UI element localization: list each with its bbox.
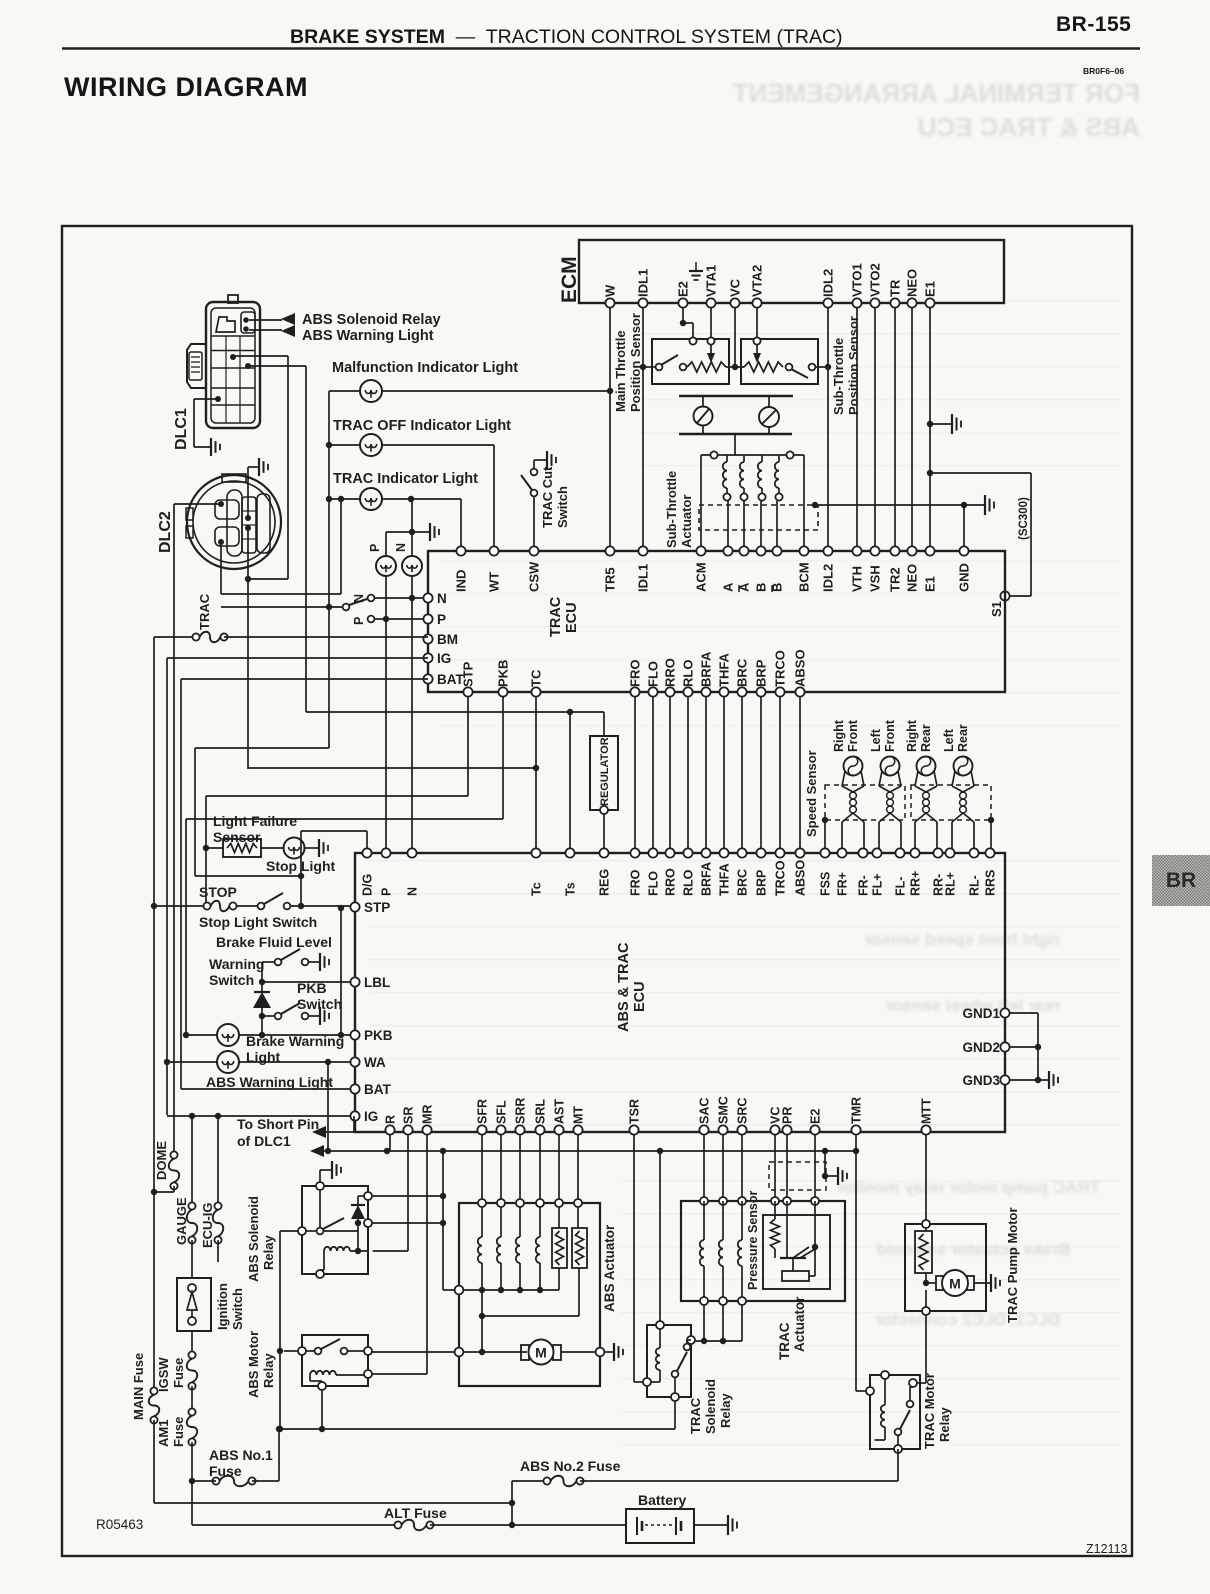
wire IDL1 down bbox=[642, 308, 644, 551]
svg-text:ABS & TRAC: ABS & TRAC bbox=[616, 942, 632, 1032]
regulator wires bbox=[603, 712, 605, 736]
main TPS potentiometer bbox=[687, 362, 726, 372]
svg-text:RR+: RR+ bbox=[909, 871, 923, 896]
svg-text:Right: Right bbox=[832, 719, 846, 752]
throttle plate 2 bbox=[759, 407, 779, 427]
svg-text:RRO: RRO bbox=[663, 658, 678, 687]
svg-text:IDL1: IDL1 bbox=[636, 564, 651, 592]
wire VTA2 bbox=[756, 308, 758, 339]
battery bbox=[626, 1509, 694, 1543]
svg-text:N: N bbox=[406, 887, 420, 896]
wire VC bbox=[734, 308, 736, 367]
DLC1 side latch bbox=[187, 344, 206, 388]
svg-text:Brake Warning: Brake Warning bbox=[246, 1033, 344, 1049]
svg-text:TRAC Indicator Light: TRAC Indicator Light bbox=[333, 471, 478, 487]
PKB row bbox=[186, 1034, 217, 1036]
svg-text:ABS Motor: ABS Motor bbox=[246, 1331, 261, 1398]
lamp N bbox=[402, 556, 422, 576]
ABS ECU pin FL- bbox=[895, 848, 904, 857]
ABS ECU pin BRFA bbox=[701, 848, 710, 857]
svg-text:STOP: STOP bbox=[199, 884, 237, 900]
E1 to S1 loop (SC300) bbox=[927, 470, 933, 476]
svg-text:BRP: BRP bbox=[755, 870, 769, 896]
wire TC to Tc bbox=[535, 697, 537, 849]
svg-text:P: P bbox=[380, 888, 394, 896]
svg-text:IGSW: IGSW bbox=[156, 1357, 171, 1392]
svg-text:ECU: ECU bbox=[632, 981, 648, 1012]
svg-text:REG: REG bbox=[598, 869, 612, 896]
BR thumb tab bbox=[1152, 855, 1210, 906]
wire N lamp down to ABS N pin bbox=[411, 576, 413, 853]
short pin arrow 1 bbox=[312, 1126, 326, 1138]
TRAC ECU pin FRO bbox=[630, 687, 639, 696]
DLC1 ground bbox=[194, 398, 218, 400]
svg-text:Ts: Ts bbox=[564, 882, 578, 896]
E1 ground tap bbox=[927, 421, 933, 427]
svg-text:TRAC: TRAC bbox=[197, 593, 212, 630]
wire E2 bbox=[814, 1135, 816, 1201]
TRAC ECU pin BCM bbox=[799, 546, 808, 555]
TRAC fuse bbox=[154, 636, 196, 638]
wires SAC SMC SRC bbox=[703, 1135, 705, 1201]
svg-text:W: W bbox=[603, 284, 618, 297]
ABS ECU pin SRR bbox=[515, 1125, 524, 1134]
STOP fuse bbox=[154, 905, 207, 907]
svg-text:FRO: FRO bbox=[628, 660, 643, 687]
ghost bleed-through text top right bbox=[640, 78, 1140, 109]
svg-text:TRCO: TRCO bbox=[773, 650, 788, 687]
speed sensor Left Rear bbox=[954, 757, 973, 776]
svg-text:Fuse: Fuse bbox=[171, 1417, 186, 1447]
svg-text:SRL: SRL bbox=[534, 1099, 548, 1124]
svg-text:Position Sensor: Position Sensor bbox=[846, 316, 861, 415]
ABS ECU pin MT bbox=[573, 1125, 582, 1134]
TRAC ECU pin THFA bbox=[719, 687, 728, 696]
svg-text:AST: AST bbox=[553, 1099, 567, 1124]
svg-text:Sub-Throttle: Sub-Throttle bbox=[664, 471, 679, 548]
wire VTO2 down bbox=[874, 308, 876, 551]
overbar B bbox=[771, 585, 773, 592]
IG row bbox=[167, 657, 428, 659]
ABS ECU pin SR bbox=[403, 1125, 412, 1134]
svg-text:NEO: NEO bbox=[905, 269, 920, 297]
svg-text:TMR: TMR bbox=[850, 1097, 864, 1124]
svg-text:IDL2: IDL2 bbox=[821, 269, 836, 297]
svg-text:Sensor: Sensor bbox=[213, 829, 261, 845]
svg-text:DLC2: DLC2 bbox=[157, 511, 174, 553]
svg-text:IND: IND bbox=[454, 570, 469, 592]
actuator link from linkage bbox=[734, 434, 736, 455]
DLC2 body bbox=[187, 475, 281, 569]
TRAC pump motor box bbox=[905, 1224, 986, 1311]
ABS motor relay contacts bbox=[315, 1348, 322, 1355]
TRAC OFF indicator light bbox=[360, 434, 382, 456]
pressure sensor box bbox=[763, 1215, 830, 1289]
svg-text:SR: SR bbox=[402, 1107, 416, 1124]
ECM pin VTO1 bbox=[852, 298, 861, 307]
wire RRO to ABS ECU bbox=[669, 697, 671, 849]
wire motor relay coil to row bbox=[321, 1390, 323, 1429]
regulator box bbox=[590, 736, 618, 810]
ABS ECU pin RR- bbox=[933, 848, 942, 857]
ABS ECU pin RLO bbox=[683, 848, 692, 857]
svg-text:Relay: Relay bbox=[261, 1353, 276, 1388]
N row bbox=[375, 597, 428, 599]
svg-text:SAC: SAC bbox=[698, 1098, 712, 1124]
svg-text:P: P bbox=[368, 544, 382, 552]
wire SRL to actuator solenoid bbox=[539, 1135, 541, 1237]
ABS warning light bbox=[217, 1051, 239, 1073]
svg-text:ABS Solenoid Relay: ABS Solenoid Relay bbox=[302, 312, 441, 328]
svg-text:SFR: SFR bbox=[476, 1099, 490, 1124]
TRAC solenoid relay switch bbox=[672, 1371, 679, 1378]
svg-text:BRC: BRC bbox=[735, 658, 750, 687]
pump motor lower wire bbox=[925, 1290, 927, 1311]
throttle linkage bars bbox=[679, 395, 793, 398]
svg-text:RLO: RLO bbox=[681, 660, 696, 687]
ABS actuator box bbox=[459, 1203, 600, 1386]
svg-text:(SC300): (SC300) bbox=[1018, 497, 1030, 540]
ABS ECU pin VC bbox=[770, 1125, 779, 1134]
wire DLC2 TRAC terminal bbox=[220, 542, 222, 594]
TRAC ECU pin S1 bbox=[1000, 591, 1009, 600]
svg-text:FLO: FLO bbox=[646, 661, 661, 687]
ABS solenoid relay box bbox=[302, 1186, 368, 1274]
motor feed row bbox=[373, 1351, 455, 1353]
TRAC ECU pin A bbox=[739, 546, 748, 555]
svg-text:P: P bbox=[352, 617, 366, 625]
TRAC solenoid relay feed bbox=[659, 1151, 661, 1325]
svg-text:ECU-IG: ECU-IG bbox=[200, 1203, 215, 1249]
svg-text:ECU: ECU bbox=[564, 602, 580, 633]
ABS ECU pin SAC bbox=[699, 1125, 708, 1134]
svg-text:Switch: Switch bbox=[209, 972, 254, 988]
TRAC ECU box bbox=[428, 551, 1005, 692]
svg-text:BCM: BCM bbox=[797, 562, 812, 592]
TRAC ECU pin BAT bbox=[423, 674, 432, 683]
ABS ECU pin MTT bbox=[921, 1125, 930, 1134]
svg-text:Left: Left bbox=[869, 728, 883, 752]
sub TPS potentiometer bbox=[744, 362, 783, 372]
wire BCM bbox=[803, 455, 805, 551]
svg-text:PKB: PKB bbox=[297, 980, 327, 996]
wire BRC to ABS ECU bbox=[741, 697, 743, 849]
svg-text:S1: S1 bbox=[989, 601, 1004, 617]
ABS solenoid relay switch bbox=[319, 1190, 321, 1227]
BM row bbox=[224, 636, 428, 638]
TRAC ECU pin RRO bbox=[665, 687, 674, 696]
wire TRCO to ABS ECU bbox=[779, 697, 781, 849]
svg-text:AM1: AM1 bbox=[156, 1420, 171, 1447]
ABS ECU pin LBL bbox=[350, 977, 359, 986]
svg-text:B: B bbox=[754, 583, 769, 592]
TRAC ECU pin VTH bbox=[852, 546, 861, 555]
DLC2 shield ground bbox=[247, 467, 249, 518]
short pin row bbox=[324, 1150, 856, 1152]
wire DLC1 Ts terminal bbox=[248, 365, 306, 367]
svg-text:IG: IG bbox=[437, 651, 451, 666]
svg-text:LBL: LBL bbox=[364, 975, 390, 990]
svg-text:Light Failure: Light Failure bbox=[213, 813, 297, 829]
LBL row bbox=[259, 979, 265, 985]
svg-text:WA: WA bbox=[364, 1055, 386, 1070]
ABS ECU pin SMC bbox=[718, 1125, 727, 1134]
wire MR bbox=[426, 1135, 428, 1374]
sub TPS wiper arrow bbox=[753, 337, 760, 344]
TRAC actuator solenoids bbox=[703, 1201, 705, 1240]
rail x154 bbox=[153, 637, 155, 1391]
svg-text:Speed Sensor: Speed Sensor bbox=[804, 750, 819, 837]
MT resistor bbox=[572, 1228, 587, 1268]
svg-text:Switch: Switch bbox=[555, 486, 570, 528]
svg-text:ABS No.1: ABS No.1 bbox=[209, 1447, 273, 1463]
svg-text:BRFA: BRFA bbox=[700, 862, 714, 896]
PKB loop row bbox=[186, 818, 503, 820]
TRAC ECU pin N bbox=[423, 593, 432, 602]
svg-text:GND: GND bbox=[957, 563, 972, 592]
pump motor resistor bbox=[915, 1231, 932, 1273]
svg-text:Relay: Relay bbox=[718, 1393, 733, 1428]
TRAC ECU pin CSW bbox=[529, 546, 538, 555]
svg-text:TR5: TR5 bbox=[603, 567, 618, 592]
speed sensor Right Rear bbox=[917, 757, 936, 776]
lamp ground row bbox=[386, 531, 430, 533]
ABS ECU pin MR bbox=[422, 1125, 431, 1134]
svg-text:E1: E1 bbox=[923, 281, 938, 297]
svg-text:A: A bbox=[721, 582, 736, 592]
ABS ECU pin Tc bbox=[531, 848, 540, 857]
TRAC ECU pin E1 bbox=[925, 546, 934, 555]
PKB switch bbox=[259, 1013, 265, 1019]
ECM pin W bbox=[605, 298, 614, 307]
svg-text:ABSO: ABSO bbox=[793, 649, 808, 687]
ABS motor relay coil bbox=[310, 1371, 336, 1375]
svg-text:Tc: Tc bbox=[530, 882, 544, 896]
malfunction indicator light bbox=[360, 380, 382, 402]
svg-text:VTO1: VTO1 bbox=[850, 263, 865, 297]
DLC1 cells bbox=[211, 335, 255, 337]
TRAC ECU pin B bbox=[756, 546, 765, 555]
ABS ECU pin RRS bbox=[985, 848, 994, 857]
ABS ECU pin FR- bbox=[858, 848, 867, 857]
svg-text:ABS Warning Light: ABS Warning Light bbox=[302, 328, 434, 344]
svg-text:Pressure Sensor: Pressure Sensor bbox=[746, 1191, 760, 1290]
svg-text:TRAC: TRAC bbox=[688, 1397, 703, 1434]
svg-text:Ignition: Ignition bbox=[215, 1283, 230, 1330]
ABS ECU pin FL+ bbox=[872, 848, 881, 857]
TRAC cut switch bbox=[533, 496, 535, 551]
svg-text:PKB: PKB bbox=[364, 1028, 393, 1043]
ABS ECU pin Ts bbox=[565, 848, 574, 857]
svg-text:NEO: NEO bbox=[905, 564, 920, 592]
short pin arrow 2 bbox=[310, 1145, 324, 1157]
svg-text:TRAC Pump Motor: TRAC Pump Motor bbox=[1005, 1207, 1020, 1323]
svg-text:N: N bbox=[437, 591, 447, 606]
wire SFL to actuator solenoid bbox=[500, 1135, 502, 1237]
ABS ECU pin BRP bbox=[756, 848, 765, 857]
wire Ts bbox=[569, 712, 571, 848]
svg-text:R05463: R05463 bbox=[96, 1517, 143, 1532]
svg-text:TRAC OFF Indicator Light: TRAC OFF Indicator Light bbox=[333, 418, 511, 434]
svg-text:Actuator: Actuator bbox=[679, 495, 694, 548]
wire TR down bbox=[894, 308, 896, 551]
brake fluid warning switch bbox=[275, 959, 282, 966]
svg-text:BRP: BRP bbox=[754, 659, 769, 687]
svg-text:M: M bbox=[535, 1345, 547, 1361]
svg-text:FRO: FRO bbox=[629, 869, 643, 896]
ABS ECU pin SFL bbox=[496, 1125, 505, 1134]
svg-text:To Short Pin: To Short Pin bbox=[237, 1116, 319, 1132]
svg-text:ABSO: ABSO bbox=[794, 860, 808, 896]
svg-text:Malfunction Indicator Light: Malfunction Indicator Light bbox=[332, 360, 518, 376]
ABS ECU pin P bbox=[381, 848, 390, 857]
ECM pin VTO2 bbox=[870, 298, 879, 307]
overbar A bbox=[738, 585, 740, 592]
svg-text:R: R bbox=[384, 1115, 398, 1124]
wire IDL2 down bbox=[827, 308, 829, 551]
TRAC ECU pin TC bbox=[531, 687, 540, 696]
sub TPS switch bbox=[786, 364, 793, 371]
svg-text:MT: MT bbox=[572, 1106, 586, 1124]
MAIN fuse bbox=[150, 1387, 157, 1394]
ABS No.2 fuse bbox=[512, 1480, 547, 1482]
svg-text:REGULATOR: REGULATOR bbox=[599, 737, 611, 806]
svg-text:RLO: RLO bbox=[682, 869, 696, 896]
svg-text:BM: BM bbox=[437, 632, 458, 647]
ABS ECU pin TSR bbox=[629, 1125, 638, 1134]
svg-text:ABS Solenoid: ABS Solenoid bbox=[246, 1196, 261, 1282]
ECM pin IDL2 bbox=[823, 298, 832, 307]
relay to fuse row bbox=[897, 1449, 899, 1481]
ABS ECU pin STP bbox=[350, 902, 359, 911]
ABS ECU pin GND3 bbox=[1000, 1075, 1009, 1084]
sub throttle position sensor box bbox=[741, 339, 818, 384]
svg-text:Front: Front bbox=[846, 719, 860, 752]
stop light subloop bbox=[195, 875, 301, 877]
TRAC ECU pin BRP bbox=[756, 687, 765, 696]
svg-text:Position Sensor: Position Sensor bbox=[628, 313, 643, 412]
svg-text:ACM: ACM bbox=[694, 562, 709, 592]
ABS No.1 row bbox=[279, 1428, 675, 1430]
svg-text:Rear: Rear bbox=[956, 724, 970, 752]
svg-text:D/G: D/G bbox=[361, 874, 375, 896]
svg-text:RRS: RRS bbox=[984, 870, 998, 896]
ABS ECU pin FR+ bbox=[837, 848, 846, 857]
relay bottom to fuse row bbox=[674, 1402, 676, 1429]
svg-text:VTO2: VTO2 bbox=[868, 263, 883, 297]
DLC1 top tab bbox=[228, 295, 238, 303]
svg-text:SRR: SRR bbox=[514, 1098, 528, 1124]
ABS ECU pin FSS bbox=[820, 848, 829, 857]
svg-text:MR: MR bbox=[421, 1105, 435, 1124]
wire ACM bbox=[700, 455, 702, 551]
svg-text:ECM: ECM bbox=[558, 256, 581, 303]
wire TMR bbox=[855, 1135, 857, 1391]
svg-text:TC: TC bbox=[529, 669, 544, 687]
P row bbox=[375, 618, 428, 620]
rail x167 bbox=[166, 658, 168, 1115]
ABS solenoid relay ground bbox=[319, 1170, 321, 1186]
pressure sensor element bbox=[782, 1271, 809, 1281]
wire FLO to ABS ECU bbox=[652, 697, 654, 849]
wire R bbox=[389, 1135, 391, 1151]
svg-text:VSH: VSH bbox=[868, 565, 883, 592]
svg-text:E2: E2 bbox=[809, 1109, 823, 1124]
TRAC solenoid relay box bbox=[647, 1325, 691, 1397]
svg-text:Actuator: Actuator bbox=[792, 1296, 807, 1352]
ignition switch box bbox=[191, 1240, 193, 1278]
svg-text:E1: E1 bbox=[923, 576, 938, 592]
arrow to ABS warning light bbox=[249, 329, 282, 331]
wire NEO down bbox=[911, 308, 913, 551]
TRAC ECU pin IG bbox=[423, 653, 432, 662]
svg-text:VC: VC bbox=[728, 278, 743, 297]
ABS ECU pin AST bbox=[554, 1125, 563, 1134]
svg-text:FL-: FL- bbox=[894, 877, 908, 896]
ECM pin TR bbox=[890, 298, 899, 307]
TRAC ECU pin TR2 bbox=[890, 546, 899, 555]
svg-text:ALT Fuse: ALT Fuse bbox=[384, 1505, 447, 1521]
wire BRFA to ABS ECU bbox=[705, 697, 707, 849]
pump motor link bbox=[481, 1290, 483, 1352]
TRAC ECU pin FLO bbox=[648, 687, 657, 696]
ABS ECU pin BAT bbox=[350, 1084, 359, 1093]
pump motor ground bbox=[604, 1351, 614, 1353]
TRAC ECU pin ABSO bbox=[795, 687, 804, 696]
svg-text:Battery: Battery bbox=[638, 1492, 686, 1508]
ABS ECU pin GND1 bbox=[1000, 1008, 1009, 1017]
IGSW fuse bbox=[191, 1331, 193, 1355]
svg-text:CSW: CSW bbox=[527, 561, 542, 592]
RRS wire bbox=[988, 817, 994, 823]
svg-text:TR2: TR2 bbox=[888, 567, 903, 592]
svg-text:TRCO: TRCO bbox=[774, 860, 788, 896]
stop light lamp bbox=[284, 838, 305, 859]
speed sensor Right Front bbox=[844, 757, 863, 776]
pressure sensor transistor bbox=[786, 1201, 788, 1258]
svg-text:TRAC: TRAC bbox=[777, 1322, 792, 1360]
wire W to TR5 bbox=[609, 308, 611, 551]
svg-text:Z12113: Z12113 bbox=[1086, 1542, 1128, 1556]
svg-text:Main Throttle: Main Throttle bbox=[613, 330, 628, 412]
D/G row bbox=[301, 830, 367, 832]
svg-text:STP: STP bbox=[461, 661, 476, 687]
wire AST bbox=[558, 1135, 560, 1228]
ABS ECU pin E2 bbox=[810, 1125, 819, 1134]
wire motor relay common bbox=[284, 1350, 298, 1352]
TRAC ECU pin BRFA bbox=[701, 687, 710, 696]
DLC2 terminal dots bbox=[218, 501, 224, 507]
ABS ECU pin BRC bbox=[737, 848, 746, 857]
svg-text:TRAC: TRAC bbox=[548, 596, 564, 637]
svg-text:BRFA: BRFA bbox=[699, 651, 714, 687]
ABS ECU pin SRL bbox=[535, 1125, 544, 1134]
wire BRP to ABS ECU bbox=[760, 697, 762, 849]
DOME fuse bbox=[170, 1151, 177, 1158]
indicator feed rail bbox=[328, 391, 330, 748]
BAT row bbox=[181, 678, 428, 680]
svg-text:FR+: FR+ bbox=[836, 872, 850, 896]
wire DLC1 W terminal bbox=[233, 355, 288, 357]
svg-text:Left: Left bbox=[942, 728, 956, 752]
GND harness bbox=[1010, 1012, 1038, 1014]
throttle plate 1 bbox=[694, 407, 713, 426]
ABS pump motor bbox=[455, 1348, 464, 1357]
wire FRO to ABS ECU bbox=[634, 697, 636, 849]
wire MT bbox=[577, 1135, 579, 1228]
shield ground line bbox=[812, 502, 818, 508]
svg-text:M: M bbox=[949, 1276, 961, 1292]
